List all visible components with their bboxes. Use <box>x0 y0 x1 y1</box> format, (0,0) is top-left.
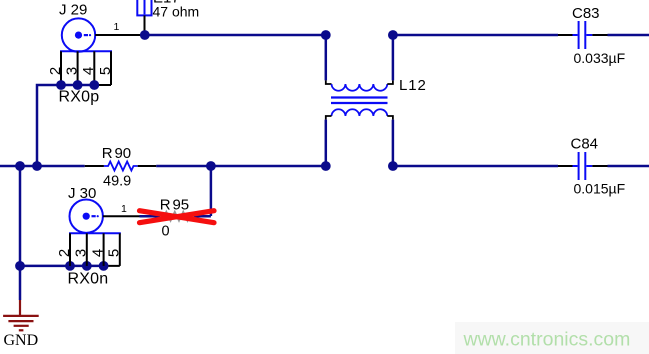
junction dot transformer bottom left <box>321 161 331 171</box>
transformer L12 bottom right lead <box>392 120 395 166</box>
svg-text:0: 0 <box>162 224 170 240</box>
transformer L12 top right lead <box>392 35 395 80</box>
wire vertical to RX0n <box>19 166 22 266</box>
svg-text:RX0n: RX0n <box>68 271 109 288</box>
wire to ground <box>19 266 22 300</box>
capacitor C84 left pin <box>558 165 573 167</box>
junction dot J29 pin3 <box>73 80 83 90</box>
J29 shield box <box>60 51 112 85</box>
ferrite bead E17 body <box>137 0 151 15</box>
junction dot middle x20 <box>15 161 25 171</box>
transformer L12 bottom left lead <box>325 120 328 166</box>
svg-text:R90: R90 <box>102 145 131 162</box>
junction dot J29 pin2 <box>56 80 66 90</box>
wire R95 right <box>194 215 211 218</box>
svg-text:C84: C84 <box>571 135 599 152</box>
wire middle C84 to right edge <box>608 165 649 168</box>
J30 shield box <box>69 233 121 266</box>
transformer L12 bottom left corner <box>326 116 332 120</box>
svg-text:4: 4 <box>80 67 97 75</box>
capacitor C83 body <box>573 21 593 49</box>
junction dot J29 pin4 <box>89 80 99 90</box>
J29 pin 1 wire <box>95 34 145 36</box>
svg-text:47 ohm: 47 ohm <box>153 4 200 20</box>
svg-text:J 29: J 29 <box>59 2 87 19</box>
junction dot RX0n left <box>15 261 25 271</box>
J30 pin 1 wire <box>103 215 140 217</box>
wire top transformer to C83 <box>393 34 558 37</box>
svg-text:RX0p: RX0p <box>59 89 100 106</box>
svg-text:1: 1 <box>114 21 120 33</box>
capacitor C84 body <box>573 152 593 180</box>
capacitor C84 right pin <box>592 165 607 167</box>
svg-text:R95: R95 <box>160 197 189 214</box>
svg-text:GND: GND <box>4 332 39 349</box>
junction dot middle x37 <box>32 161 42 171</box>
svg-text:49.9: 49.9 <box>103 174 131 190</box>
junction dot J30 pin2 <box>65 261 75 271</box>
transformer L12 top right corner <box>387 80 393 84</box>
junction dot J30 pin4 <box>99 261 109 271</box>
capacitor C83 right pin <box>592 34 607 36</box>
connector J29 circle <box>62 18 95 51</box>
junction dot transformer top right <box>388 30 398 40</box>
resistor R90 right pin <box>138 165 157 167</box>
watermark panel <box>455 322 649 354</box>
transformer L12 core <box>331 98 388 104</box>
wire RX0p shield <box>37 85 94 166</box>
svg-text:0.015µF: 0.015µF <box>574 181 626 197</box>
junction dot transformer bottom right <box>388 161 398 171</box>
wire top C83 to right edge <box>608 34 649 37</box>
wire RX0n shield <box>20 265 104 268</box>
svg-text:1: 1 <box>121 203 127 215</box>
svg-text:4: 4 <box>89 249 106 257</box>
resistor R90 body <box>104 162 138 171</box>
wire middle R90 to transformer <box>156 165 326 168</box>
transformer L12 top left lead <box>325 35 328 80</box>
svg-text:2: 2 <box>47 67 64 75</box>
connector J30 circle <box>70 200 103 233</box>
connector J30 center pin <box>83 213 99 220</box>
resistor R90 left pin <box>85 165 104 167</box>
svg-text:L12: L12 <box>399 77 427 94</box>
svg-text:3: 3 <box>73 249 90 257</box>
connector J29 center pin <box>75 31 91 38</box>
junction dot transformer top left <box>321 30 331 40</box>
svg-text:www.cntronics.com: www.cntronics.com <box>463 329 631 351</box>
transformer L12 top left corner <box>326 80 332 84</box>
wire middle left edge to R90 <box>0 165 85 168</box>
junction dot top at bead <box>140 30 150 40</box>
svg-text:5: 5 <box>97 67 114 75</box>
junction dot J30 pin3 <box>82 261 92 271</box>
wire top J29 junction to transformer <box>145 34 326 37</box>
capacitor C83 left pin <box>558 34 573 36</box>
svg-text:3: 3 <box>63 67 80 75</box>
wire R95 left <box>140 215 161 218</box>
transformer L12 bottom right corner <box>387 116 393 120</box>
R95 DNP red X <box>140 211 215 223</box>
svg-text:5: 5 <box>106 249 123 257</box>
wire RX0n pin5 stub <box>104 265 120 267</box>
svg-text:C83: C83 <box>572 5 600 22</box>
wire RX0p pin5 stub <box>94 84 111 86</box>
wire middle transformer to C84 <box>393 165 558 168</box>
wire R95 to middle junction <box>210 166 213 216</box>
transformer L12 bottom winding <box>332 109 388 116</box>
svg-text:2: 2 <box>56 249 73 257</box>
svg-text:0.033µF: 0.033µF <box>574 50 626 66</box>
resistor R95 body (DNP, gray) <box>160 212 194 221</box>
junction dot middle R95 <box>206 161 216 171</box>
ground symbol <box>3 300 39 330</box>
wire bead pin to junction <box>144 15 146 35</box>
transformer L12 top winding <box>332 84 388 91</box>
